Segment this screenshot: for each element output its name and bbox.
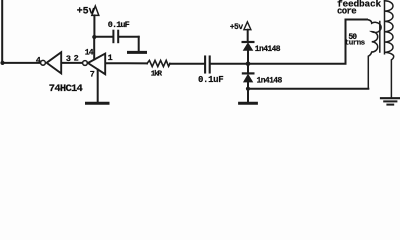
svg-text:0.1uF: 0.1uF [198,75,223,85]
svg-text:2: 2 [74,53,79,63]
svg-text:1: 1 [108,53,113,63]
svg-text:1n4148: 1n4148 [255,45,281,54]
svg-text:3: 3 [66,54,71,64]
svg-text:1n4148: 1n4148 [257,76,283,85]
svg-text:1kR: 1kR [151,71,163,79]
svg-text:0.1uF: 0.1uF [108,20,130,30]
svg-text:core: core [337,7,356,17]
svg-text:4: 4 [36,55,41,65]
svg-text:+5v: +5v [77,7,95,18]
svg-text:+5v: +5v [230,23,244,32]
svg-text:14: 14 [85,49,94,58]
svg-text:turns: turns [345,39,366,47]
svg-text:7: 7 [90,70,95,80]
svg-text:74HC14: 74HC14 [49,83,83,95]
